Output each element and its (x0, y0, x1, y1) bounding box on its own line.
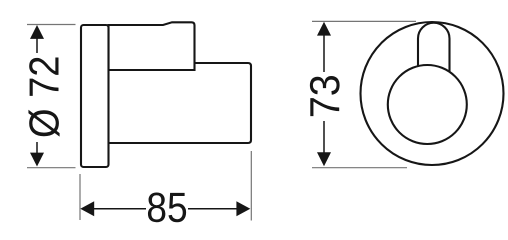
dim 85 left line segment (94, 208, 147, 210)
dim Ø72 label (28, 58, 59, 137)
front view: outer circle (361, 22, 504, 165)
dim Ø72 top extension line (27, 24, 76, 26)
dim 85 left arrow (80, 201, 94, 216)
side view: wall plate (81, 25, 109, 167)
dim 73 bottom stem (323, 121, 325, 153)
side view: holder upper block with ramp (109, 22, 195, 70)
dim 73 bottom arrow (317, 152, 331, 166)
dim 73 top stem (323, 35, 325, 72)
dim Ø72 top arrow (30, 25, 44, 39)
dim 85 right extension line (250, 151, 252, 221)
dim 73 bottom extension line (312, 167, 407, 169)
dim 73 top extension line (312, 20, 416, 22)
front view: top clamp tab (418, 23, 450, 73)
dim Ø72 bottom stem (36, 142, 38, 154)
dim 73 label (310, 76, 340, 116)
dim Ø72 bottom arrow (30, 153, 44, 167)
side view: holder body lower cylinder (105, 63, 251, 143)
dim 73 top arrow (317, 22, 331, 36)
dim 85 left extension line (79, 174, 81, 220)
dim Ø72 top stem (36, 38, 38, 53)
dim 85 right arrow (236, 201, 250, 216)
front view: inner circle (388, 65, 467, 144)
dim 85 label (148, 192, 186, 222)
dim 85 right line segment (188, 208, 237, 210)
dim Ø72 bottom extension line (27, 167, 76, 169)
